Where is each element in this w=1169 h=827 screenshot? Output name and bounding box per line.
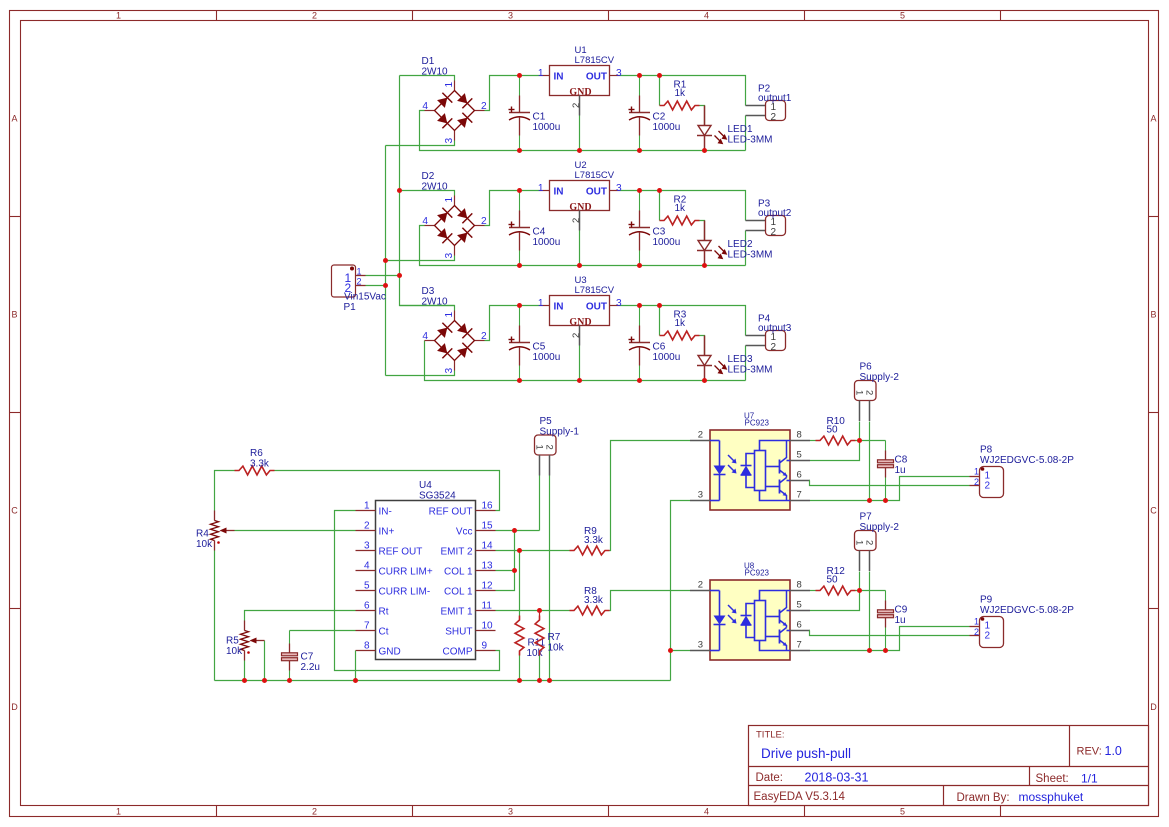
wire AC line vertical x=399.5 — [399, 76, 401, 276]
svg-text:LED-3MM: LED-3MM — [728, 250, 773, 261]
svg-text:3.3k: 3.3k — [584, 535, 604, 546]
svg-text:GND: GND — [569, 202, 591, 213]
svg-text:2: 2 — [974, 627, 979, 637]
svg-text:1000u: 1000u — [533, 122, 561, 133]
connector P2 output1 — [746, 84, 792, 124]
node COL1 junction — [512, 568, 517, 573]
svg-text:C1: C1 — [533, 112, 546, 123]
svg-text:4: 4 — [704, 10, 709, 20]
svg-text:Supply-2: Supply-2 — [860, 522, 900, 533]
wire P7 pin1 drop — [859, 572, 861, 591]
node C2 rail junction — [637, 148, 642, 153]
wire U4 EMIT1 to R8 — [496, 610, 570, 612]
node R5 rail junction — [242, 678, 247, 683]
svg-text:C5: C5 — [533, 342, 546, 353]
svg-text:D3: D3 — [422, 286, 435, 297]
wire AC feed to D1 pin1 — [400, 76, 455, 81]
svg-text:P5: P5 — [540, 416, 553, 427]
svg-text:PC923: PC923 — [745, 419, 770, 428]
svg-text:LED1: LED1 — [728, 124, 753, 135]
optocoupler U8 PC923 — [690, 562, 810, 661]
node C4 rail junction — [517, 263, 522, 268]
svg-text:GND: GND — [569, 87, 591, 98]
svg-text:2: 2 — [985, 631, 991, 642]
svg-text:3: 3 — [616, 183, 622, 194]
wire opto pin6 to P8 pin2 — [810, 481, 970, 486]
svg-text:P8: P8 — [980, 445, 993, 456]
wire R8 to U8 pin2 — [610, 591, 691, 611]
wire D2 pin4 to rail 2 — [420, 226, 746, 266]
svg-text:LED-3MM: LED-3MM — [728, 365, 773, 376]
svg-text:16: 16 — [482, 501, 494, 512]
svg-text:2: 2 — [571, 333, 582, 338]
svg-text:LED-3MM: LED-3MM — [728, 135, 773, 146]
svg-text:Ct: Ct — [379, 626, 389, 637]
svg-text:3: 3 — [508, 806, 513, 816]
wire junction to R1 — [659, 76, 661, 106]
svg-text:Supply-2: Supply-2 — [860, 372, 900, 383]
svg-text:PC923: PC923 — [745, 569, 770, 578]
connector P3 output2 — [746, 199, 792, 239]
wire AC line to D3 pin1 — [400, 276, 455, 306]
wire D3 pin2 to U3 IN — [485, 306, 540, 341]
wire U1 OUT to P2 pin1 — [620, 76, 746, 106]
svg-text:1: 1 — [116, 10, 121, 20]
frame column ticks bottom — [216, 806, 218, 817]
wire R11 bottom to ground rail — [519, 656, 521, 681]
svg-text:SHUT: SHUT — [445, 626, 472, 637]
connector P7 Supply-2 — [854, 512, 900, 572]
connector P8 WJ2EDGVC-5.08-2P — [970, 445, 1075, 498]
svg-text:Supply-1: Supply-1 — [540, 427, 580, 438]
title block — [749, 726, 1149, 806]
svg-text:A: A — [1150, 114, 1156, 124]
svg-text:EasyEDA V5.3.14: EasyEDA V5.3.14 — [754, 791, 846, 803]
svg-text:1: 1 — [444, 312, 455, 318]
capacitor C7 2.2u — [282, 631, 320, 681]
frame column ticks top — [216, 11, 218, 21]
svg-text:L7815CV: L7815CV — [575, 170, 615, 181]
wire U8 pin3 stub join — [671, 650, 691, 652]
svg-text:C2: C2 — [653, 112, 666, 123]
svg-text:7: 7 — [797, 490, 802, 501]
svg-text:50: 50 — [827, 575, 839, 586]
svg-text:3.3k: 3.3k — [584, 595, 604, 606]
svg-text:1k: 1k — [675, 88, 687, 99]
resistor R3 1k — [660, 310, 700, 340]
svg-text:2: 2 — [771, 227, 777, 238]
wire AC feed to D2 pin1 — [400, 191, 455, 196]
svg-text:5: 5 — [797, 600, 802, 611]
wire opto pin8 to R10 — [810, 440, 816, 442]
node P6 pin2 junction — [867, 498, 872, 503]
svg-text:Sheet:: Sheet: — [1036, 773, 1069, 785]
svg-text:12: 12 — [482, 581, 494, 592]
wire R6 feedback branch — [215, 471, 235, 511]
wire P1 pin1 — [366, 275, 400, 277]
svg-text:7: 7 — [364, 621, 370, 632]
wire R10 to C8 top — [856, 440, 886, 442]
svg-text:10: 10 — [482, 621, 494, 632]
wire U4 COL1 pin13 — [496, 570, 515, 572]
node C1 rail junction — [517, 148, 522, 153]
wire U3 OUT to P4 pin1 — [620, 306, 746, 336]
node C5 top junction — [517, 303, 522, 308]
svg-text:2: 2 — [864, 540, 875, 545]
node R12 output junction — [857, 588, 862, 593]
svg-text:COL 1: COL 1 — [444, 566, 473, 577]
svg-text:2: 2 — [771, 342, 777, 353]
svg-text:output2: output2 — [758, 208, 792, 219]
svg-text:mossphuket: mossphuket — [1019, 790, 1084, 804]
wire R4 lower to ground rail — [214, 551, 216, 681]
svg-text:1: 1 — [538, 183, 544, 194]
svg-text:10k: 10k — [196, 539, 213, 550]
wire D3 pin3 to AC return — [386, 371, 455, 376]
svg-text:P9: P9 — [980, 595, 993, 606]
svg-text:Date:: Date: — [756, 772, 784, 784]
capacitor C9 1u — [878, 591, 908, 651]
node U4 GND rail junction — [353, 678, 358, 683]
node R2 branch junction — [657, 188, 662, 193]
svg-text:Vcc: Vcc — [456, 526, 473, 537]
svg-text:R7: R7 — [548, 632, 561, 643]
node EMIT1 junction — [537, 608, 542, 613]
svg-text:REF OUT: REF OUT — [429, 506, 473, 517]
optocoupler U7 PC923 — [690, 412, 810, 511]
svg-text:output1: output1 — [758, 93, 792, 104]
svg-text:2: 2 — [481, 101, 487, 112]
wire U2 GND to rail 2 — [579, 231, 581, 266]
svg-text:2: 2 — [698, 580, 703, 591]
svg-text:CURR LIM+: CURR LIM+ — [379, 566, 433, 577]
svg-text:1u: 1u — [895, 465, 906, 476]
svg-text:1k: 1k — [675, 203, 687, 214]
capacitor C2 1000u — [629, 76, 681, 151]
svg-text:1: 1 — [538, 68, 544, 79]
node P5 pin2 rail junction — [547, 678, 552, 683]
wire opto pin7 rail — [810, 627, 970, 651]
capacitor C3 1000u — [629, 191, 681, 266]
svg-text:B: B — [1150, 310, 1156, 320]
node D2 feed junction — [397, 188, 402, 193]
wire junction to R2 — [659, 191, 661, 221]
svg-text:EMIT 2: EMIT 2 — [440, 546, 472, 557]
svg-text:2: 2 — [571, 218, 582, 223]
frame row ticks right — [1149, 216, 1159, 218]
node C2 top junction — [637, 73, 642, 78]
svg-text:10k: 10k — [548, 643, 565, 654]
svg-text:TITLE:: TITLE: — [756, 730, 785, 741]
wire D1 pin4 to rail 1 — [420, 111, 746, 151]
resistor R11 10k — [515, 616, 545, 660]
node C9 bottom junction — [883, 648, 888, 653]
svg-text:8: 8 — [797, 430, 802, 441]
wire R2 to LED2 — [700, 221, 705, 241]
wire R6 to U4 REF OUT — [275, 471, 500, 511]
svg-text:1000u: 1000u — [653, 122, 681, 133]
resistor R1 1k — [660, 80, 700, 110]
svg-text:OUT: OUT — [586, 302, 607, 313]
svg-text:2: 2 — [985, 481, 991, 492]
svg-text:IN-: IN- — [379, 506, 392, 517]
capacitor C8 1u — [878, 441, 908, 501]
wire R7 bottom to ground rail — [539, 656, 541, 681]
svg-text:2: 2 — [364, 521, 370, 532]
svg-text:P7: P7 — [860, 512, 873, 523]
capacitor C1 1000u — [509, 76, 561, 151]
svg-text:D: D — [1150, 702, 1157, 712]
node R3 branch junction — [657, 303, 662, 308]
wire opto pin7 rail — [810, 477, 970, 501]
svg-text:COMP: COMP — [443, 646, 473, 657]
svg-text:3: 3 — [364, 541, 370, 552]
svg-text:1: 1 — [364, 501, 370, 512]
LED LED1 LED-3MM — [697, 106, 773, 151]
svg-text:L7815CV: L7815CV — [575, 285, 615, 296]
wire U4 Vcc to P5 pin1 — [496, 530, 540, 532]
node C7 rail junction — [287, 678, 292, 683]
svg-text:1: 1 — [854, 540, 865, 545]
IC U4 SG3524 — [356, 480, 496, 660]
node U1 GND rail junction — [577, 148, 582, 153]
wire R3 to LED3 — [700, 336, 705, 356]
svg-text:1000u: 1000u — [533, 352, 561, 363]
svg-text:1k: 1k — [675, 318, 687, 329]
connector P4 output3 — [746, 314, 792, 354]
wire opto pin8 to R12 — [810, 590, 816, 592]
wire U4 Ct to C7 — [290, 630, 356, 632]
svg-text:8: 8 — [797, 580, 802, 591]
wire R5 wiper to ground rail — [264, 641, 266, 681]
svg-text:2: 2 — [864, 390, 875, 395]
node R10 output junction — [857, 438, 862, 443]
svg-text:IN: IN — [554, 72, 564, 83]
svg-text:50: 50 — [827, 425, 839, 436]
svg-text:2: 2 — [974, 477, 979, 487]
svg-text:2: 2 — [771, 112, 777, 123]
wire R12 to C9 top — [856, 590, 886, 592]
bridge rectifier D1 2W10 — [422, 81, 487, 144]
wire ground rail — [215, 680, 671, 682]
potentiometer R4 10k — [196, 511, 235, 551]
svg-text:3: 3 — [444, 253, 455, 259]
svg-text:D1: D1 — [422, 56, 435, 67]
wire P5 pin2 drop to ground rail — [549, 476, 551, 681]
svg-text:5: 5 — [797, 450, 802, 461]
wire U1 GND to rail 1 — [579, 116, 581, 151]
voltage regulator U3 L7815CV — [538, 275, 622, 346]
resistor R6 3.3k — [235, 448, 275, 475]
wire AC return vertical x=385.5 — [385, 146, 387, 376]
svg-text:C9: C9 — [895, 605, 908, 616]
svg-text:2: 2 — [312, 806, 317, 816]
frame row ticks left — [10, 216, 21, 218]
node P1 pin2 junction — [383, 283, 388, 288]
wire P3 pin2 to rail 2 — [745, 231, 747, 266]
node U2 GND rail junction — [577, 263, 582, 268]
svg-text:IN+: IN+ — [379, 526, 395, 537]
node C6 top junction — [637, 303, 642, 308]
wire R9 to U7 pin2 — [610, 441, 691, 551]
svg-text:Drive push-pull: Drive push-pull — [761, 746, 851, 761]
node LED1 rail junction — [702, 148, 707, 153]
wire D2 pin3 to AC return — [386, 256, 455, 261]
svg-text:6: 6 — [797, 470, 802, 481]
svg-text:3: 3 — [698, 640, 703, 651]
svg-text:3.3k: 3.3k — [250, 459, 270, 470]
svg-text:R5: R5 — [226, 636, 239, 647]
wire junction to R3 — [659, 306, 661, 336]
wire D3 pin4 to rail 3 — [425, 341, 746, 381]
svg-text:output3: output3 — [758, 323, 792, 334]
svg-text:IN: IN — [554, 187, 564, 198]
resistor R8 3.3k — [570, 586, 610, 615]
bridge rectifier D2 2W10 — [422, 196, 487, 259]
svg-text:A: A — [11, 114, 17, 124]
node P7 pin2 junction — [867, 648, 872, 653]
svg-text:OUT: OUT — [586, 187, 607, 198]
svg-text:U4: U4 — [419, 480, 432, 491]
LED LED3 LED-3MM — [697, 336, 773, 381]
svg-text:9: 9 — [482, 641, 488, 652]
svg-text:1000u: 1000u — [653, 352, 681, 363]
node EMIT2 junction — [517, 548, 522, 553]
svg-text:OUT: OUT — [586, 72, 607, 83]
svg-text:1: 1 — [116, 806, 121, 816]
node U3 GND rail junction — [577, 378, 582, 383]
wire R1 to LED1 — [700, 106, 705, 126]
wire P7 pin1 to opto pin5 — [810, 591, 860, 611]
wire P6 pin2 drop — [869, 422, 871, 501]
node R7 rail junction — [537, 678, 542, 683]
svg-text:2: 2 — [312, 10, 317, 20]
node LED3 rail junction — [702, 378, 707, 383]
resistor R7 10k — [535, 611, 565, 656]
svg-text:IN: IN — [554, 302, 564, 313]
capacitor C6 1000u — [629, 306, 681, 381]
svg-text:LED3: LED3 — [728, 354, 753, 365]
svg-text:2W10: 2W10 — [422, 182, 449, 193]
wire D2 pin2 to U2 IN — [485, 191, 540, 226]
voltage regulator U2 L7815CV — [538, 160, 622, 231]
node Vcc junction — [512, 528, 517, 533]
svg-text:2: 2 — [571, 103, 582, 108]
svg-text:R6: R6 — [250, 448, 263, 459]
svg-text:1000u: 1000u — [653, 237, 681, 248]
svg-text:5: 5 — [900, 806, 905, 816]
wire P6 pin1 to opto pin5 — [810, 441, 860, 461]
svg-text:3: 3 — [444, 138, 455, 144]
wire R5 bottom to ground rail — [244, 661, 246, 681]
svg-text:1/1: 1/1 — [1081, 772, 1098, 786]
svg-text:2.2u: 2.2u — [301, 662, 320, 673]
svg-text:Rt: Rt — [379, 606, 389, 617]
node C6 rail junction — [637, 378, 642, 383]
svg-text:1: 1 — [974, 467, 979, 477]
wire D1 pin2 to U1 IN — [485, 76, 540, 111]
voltage regulator U1 L7815CV — [538, 45, 622, 116]
svg-text:15: 15 — [482, 521, 494, 532]
svg-text:1: 1 — [854, 390, 865, 395]
svg-text:C: C — [11, 506, 18, 516]
resistor R10 — [816, 416, 856, 445]
svg-text:1: 1 — [974, 617, 979, 627]
node R11 rail junction — [517, 678, 522, 683]
resistor R9 3.3k — [570, 526, 610, 555]
svg-text:4: 4 — [422, 101, 428, 112]
svg-text:3: 3 — [444, 368, 455, 374]
wire U4 Rt to R5 — [245, 611, 356, 621]
node R1 branch junction — [657, 73, 662, 78]
wire EMIT2 to R11 — [519, 551, 521, 616]
svg-text:SG3524: SG3524 — [419, 491, 456, 502]
wire U4 IN- to COMP feedback loop — [335, 511, 500, 671]
connector P1 Vin15Vac — [332, 265, 386, 313]
svg-text:6: 6 — [797, 620, 802, 631]
svg-text:8: 8 — [364, 641, 370, 652]
svg-text:2018-03-31: 2018-03-31 — [805, 771, 869, 785]
capacitor C4 1000u — [509, 191, 561, 266]
svg-text:C7: C7 — [301, 652, 314, 663]
node C8 bottom junction — [883, 498, 888, 503]
connector P6 Supply-2 — [854, 362, 900, 422]
svg-text:EMIT 1: EMIT 1 — [440, 606, 472, 617]
svg-text:5: 5 — [364, 581, 370, 592]
svg-text:1000u: 1000u — [533, 237, 561, 248]
wire U4 GND to ground rail — [355, 651, 357, 681]
node C3 top junction — [637, 188, 642, 193]
svg-text:7: 7 — [797, 640, 802, 651]
svg-text:REV:: REV: — [1077, 746, 1102, 758]
svg-text:4: 4 — [422, 216, 428, 227]
node C1 top junction — [517, 73, 522, 78]
svg-text:10k: 10k — [226, 646, 243, 657]
svg-text:L7815CV: L7815CV — [575, 55, 615, 66]
svg-text:2: 2 — [698, 430, 703, 441]
svg-text:GND: GND — [569, 317, 591, 328]
svg-text:1: 1 — [534, 445, 545, 450]
svg-text:1: 1 — [444, 82, 455, 88]
wire P4 pin2 to rail 3 — [745, 346, 747, 381]
wire AC feed to D3 pin1 — [400, 306, 455, 311]
svg-text:C: C — [1150, 506, 1157, 516]
svg-text:D: D — [11, 702, 18, 712]
svg-text:3: 3 — [616, 298, 622, 309]
svg-text:4: 4 — [704, 806, 709, 816]
svg-text:1: 1 — [357, 267, 362, 277]
svg-text:13: 13 — [482, 561, 494, 572]
svg-text:4: 4 — [364, 561, 370, 572]
wire P6 pin1 drop — [859, 422, 861, 441]
bridge rectifier D3 2W10 — [422, 311, 487, 374]
wire R4 wiper to U4 IN+ — [235, 530, 356, 532]
wire opto pin6 to P9 pin2 — [810, 631, 970, 636]
wire Vcc to COL1 bus — [496, 531, 515, 591]
svg-text:1u: 1u — [895, 615, 906, 626]
node C5 rail junction — [517, 378, 522, 383]
svg-text:WJ2EDGVC-5.08-2P: WJ2EDGVC-5.08-2P — [980, 455, 1074, 466]
svg-text:2: 2 — [481, 216, 487, 227]
potentiometer R5 10k — [226, 621, 265, 661]
wire P5 pin1 drop — [539, 476, 541, 531]
svg-text:2: 2 — [481, 331, 487, 342]
svg-text:R4: R4 — [196, 529, 209, 540]
wire P1 pin2 — [366, 285, 386, 287]
svg-text:4: 4 — [422, 331, 428, 342]
svg-text:Vin15Vac: Vin15Vac — [344, 292, 386, 303]
svg-text:6: 6 — [364, 601, 370, 612]
